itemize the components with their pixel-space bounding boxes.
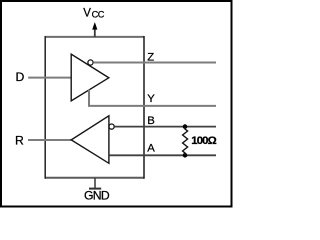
receiver U2 triangle	[71, 116, 109, 164]
wire R output	[28, 139, 71, 141]
svg-text:A: A	[147, 143, 155, 155]
driver U1 triangle	[71, 54, 109, 101]
svg-text:V: V	[83, 8, 91, 20]
svg-text:CC: CC	[92, 10, 105, 20]
GND pin wire	[94, 178, 96, 189]
svg-text:B: B	[147, 115, 155, 127]
border frame	[1, 1, 232, 207]
ground symbol bar	[89, 188, 101, 190]
wire D input	[28, 77, 71, 79]
svg-text:100Ω: 100Ω	[191, 135, 216, 147]
junction dot on A line	[183, 153, 188, 158]
svg-text:Y: Y	[147, 93, 155, 105]
wire A input	[109, 154, 216, 156]
svg-text:D: D	[16, 70, 25, 84]
wire B input	[114, 126, 216, 128]
VCC arrowhead	[92, 22, 97, 30]
receiver inversion bubble (B input)	[109, 124, 114, 129]
driver inversion bubble (Z output)	[88, 60, 93, 65]
svg-text:R: R	[15, 133, 24, 147]
svg-text:Z: Z	[147, 52, 154, 64]
wire Y tap from driver	[89, 90, 216, 106]
wire Z output	[93, 62, 216, 64]
IC outline box	[45, 36, 144, 179]
junction dot on B line	[183, 124, 188, 129]
resistor R1 zigzag	[183, 127, 188, 156]
VCC pin wire	[94, 29, 96, 37]
svg-text:GND: GND	[84, 189, 110, 203]
